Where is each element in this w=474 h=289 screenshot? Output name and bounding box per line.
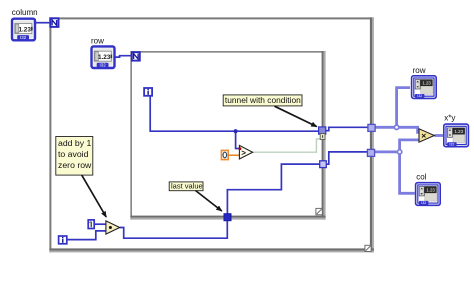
wire multiply output to indicator x*y <box>434 134 443 137</box>
svg-text:I32: I32 <box>20 35 27 40</box>
svg-text:×: × <box>421 131 426 141</box>
free label "add by 1 to avoid zero row" <box>56 137 93 176</box>
constant "0" (DBL) <box>221 150 228 159</box>
wire branch up to indicator row <box>397 88 410 128</box>
svg-text:>: > <box>241 148 246 157</box>
wire tunnel A to outer tunnel D <box>326 127 368 130</box>
free label "last value" <box>169 182 203 191</box>
free label "tunnel with condition" <box>223 95 302 106</box>
indicator "col" terminal icon <box>416 183 441 206</box>
tunnel A (conditional, inner loop right edge) <box>319 127 326 134</box>
svg-text:x*y: x*y <box>444 114 455 123</box>
arrow from add-by-1 label to increment node <box>82 175 106 217</box>
wire constant 0 to greater node (orange DBL) <box>228 154 239 156</box>
svg-text:column: column <box>12 8 38 17</box>
wire column to outer N <box>36 22 50 24</box>
indicator "x*y" terminal icon <box>444 124 469 147</box>
constant "1" <box>88 220 94 229</box>
wire branch down to greater node <box>236 131 240 148</box>
wire tunnel C to junction J2 <box>375 150 400 153</box>
svg-text:1.23: 1.23 <box>455 129 464 134</box>
svg-text:to avoid: to avoid <box>58 149 89 159</box>
coercion dot on greater node input <box>239 147 242 150</box>
svg-text:I32: I32 <box>417 94 422 98</box>
wire outer i to increment node <box>67 231 106 240</box>
tunnel D (outer loop right edge, upper) <box>368 124 375 131</box>
junction J2 <box>397 150 401 154</box>
junction dot on i wire <box>234 129 238 133</box>
for-loop F1 (outer) border <box>49 17 374 252</box>
for-loop F2 (inner) border <box>130 51 325 220</box>
wire tunnel B to outer tunnel C <box>326 152 367 164</box>
arrow from last value label to last-value tunnel <box>196 191 222 212</box>
tunnel C (outer loop right edge, lower) <box>367 149 374 156</box>
wire increment output to last-value tunnel <box>120 221 228 239</box>
svg-text:zero row: zero row <box>58 160 92 170</box>
increment node (+1) <box>106 221 120 234</box>
indicator "row" terminal icon <box>412 76 437 99</box>
wire last-value tunnel inside loop <box>227 164 319 214</box>
svg-text:I32: I32 <box>421 201 426 205</box>
for-loop F2 iteration terminal i <box>144 88 152 96</box>
arrow from tunnel label to tunnel A <box>275 106 317 126</box>
for-loop F2 count terminal N <box>132 52 140 60</box>
svg-text:1.23: 1.23 <box>426 187 435 192</box>
wire constant 1 to increment node <box>95 223 106 225</box>
tunnel A condition badge <box>320 134 325 140</box>
junction J1 <box>394 125 398 129</box>
wire row to inner N <box>115 56 131 57</box>
wire J2 up to multiply bottom input <box>400 140 420 152</box>
svg-text:I32: I32 <box>100 63 107 68</box>
svg-text:1.23: 1.23 <box>18 26 31 33</box>
tunnel last value (inner loop bottom edge) <box>224 214 231 221</box>
svg-text:I32: I32 <box>449 143 454 147</box>
svg-text:row: row <box>413 66 426 75</box>
tunnel B (inner loop right edge, lower) <box>320 161 327 168</box>
svg-text:1.23: 1.23 <box>98 54 111 61</box>
control "column" terminal icon <box>12 19 35 41</box>
greater-than node <box>239 145 252 159</box>
wire J2 down to indicator col <box>400 152 415 193</box>
svg-text:add by 1: add by 1 <box>58 138 91 148</box>
svg-text:1.23: 1.23 <box>422 81 431 86</box>
svg-text:col: col <box>416 172 426 181</box>
for-loop F1 count terminal N <box>50 18 58 27</box>
svg-text:last value: last value <box>171 182 203 191</box>
svg-text:tunnel with condition: tunnel with condition <box>225 95 301 105</box>
svg-text:row: row <box>91 37 104 46</box>
wire tunnel D to multiply top input (array) <box>375 127 419 132</box>
wire greater output to conditional badge (boolean) <box>253 139 321 152</box>
for-loop F1 corner resize glyph <box>365 245 371 251</box>
wire inner i down and right to conditional tunnel <box>150 96 318 131</box>
for-loop F2 corner resize glyph <box>316 208 322 214</box>
for-loop F1 iteration terminal i <box>59 236 67 244</box>
multiply node <box>419 129 434 142</box>
control "row" terminal icon <box>92 46 115 68</box>
